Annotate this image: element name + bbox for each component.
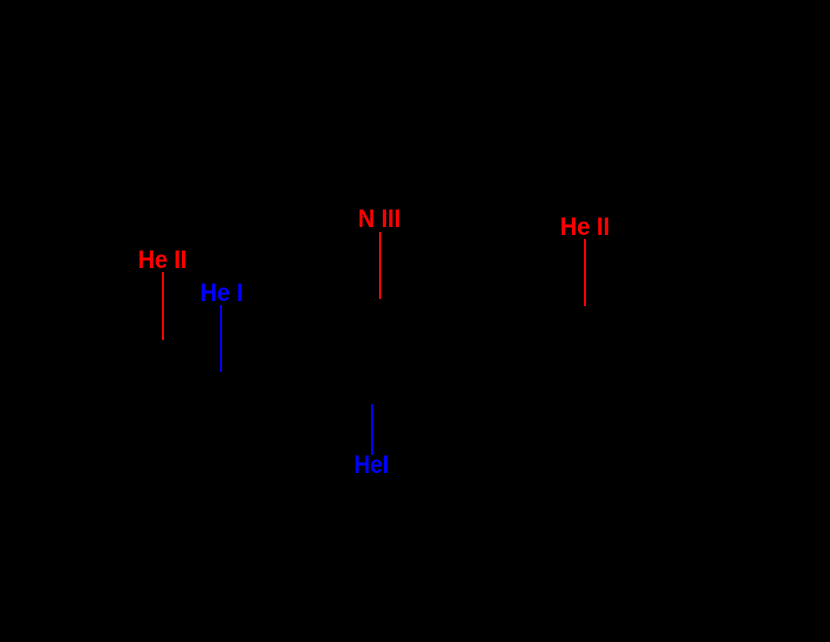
label He I [200, 281, 243, 306]
label He II (right) [560, 215, 610, 240]
spectral line He I [220, 305, 222, 372]
label N III [358, 207, 401, 232]
label HeI [354, 453, 389, 478]
spectral line He II 4686 (left) [162, 272, 164, 340]
spectral line HeI [371, 404, 373, 455]
label He II (left) [138, 248, 187, 273]
spectral line N III [379, 232, 381, 299]
spectral line He II (right) [584, 239, 586, 306]
